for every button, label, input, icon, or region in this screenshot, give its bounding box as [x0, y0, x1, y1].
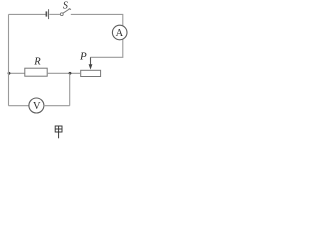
svg-text:P: P [79, 51, 87, 63]
wire switch to top-right corner and down to ammeter [71, 14, 123, 25]
ammeter A circle [112, 25, 127, 40]
rheostat wiper arrowhead [89, 64, 93, 69]
voltmeter V circle [29, 98, 44, 113]
switch S contact tick [69, 9, 71, 10]
rheostat wiper stem [90, 57, 92, 65]
svg-text:A: A [116, 28, 124, 39]
wire voltmeter to right drop [44, 105, 70, 107]
svg-text:S: S [63, 0, 68, 11]
wire left rail vertical [8, 14, 10, 105]
wire resistor R to rheostat [47, 72, 80, 74]
battery cell: short thick plate (negative) [45, 11, 47, 16]
switch S blade arm [63, 9, 70, 13]
svg-text:V: V [33, 101, 41, 112]
svg-text:R: R [33, 57, 41, 68]
node junction left (left rail / R / voltmeter) [8, 72, 11, 75]
node junction right (R / rheostat / voltmeter) [69, 72, 72, 75]
wire voltmeter branch right vertical up to junction [69, 73, 71, 105]
wire ammeter bottom to horizontal run to wiper [90, 39, 122, 57]
wire bottom-left to voltmeter [9, 105, 29, 107]
rheostat P body [81, 70, 101, 76]
wire middle-left (left rail to resistor R) [9, 72, 25, 74]
switch S pivot circle [60, 13, 63, 16]
label 甲 (drawn glyph) box [55, 126, 62, 138]
wire battery to switch [49, 13, 60, 15]
battery cell: long thin plate (positive) [48, 9, 50, 19]
wire top-left (battery to left rail) [9, 13, 46, 15]
resistor R body [25, 68, 47, 76]
